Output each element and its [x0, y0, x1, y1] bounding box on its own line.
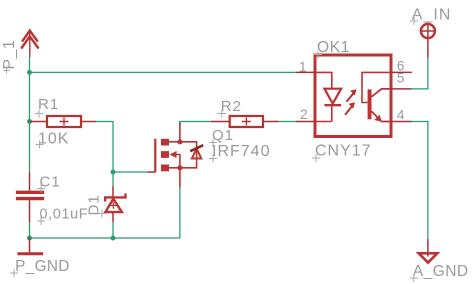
emitter [372, 111, 392, 121]
junction node gate/D1 [111, 170, 116, 175]
zener diode D1 [105, 186, 125, 222]
svg-text:P_1: P_1 [1, 39, 18, 69]
wire top rail from P_1 to OK1 pin1 [30, 57, 297, 72]
svg-text:A_GND: A_GND [413, 263, 469, 280]
gate bar [154, 139, 156, 172]
junction node D1 ground [111, 236, 116, 241]
wire drain to R2 [180, 122, 211, 128]
origin cross P_1 label [4, 68, 10, 74]
wire left vertical P_1 to C1 [29, 72, 31, 172]
body diode [192, 149, 201, 159]
emitter arrowhead [374, 115, 382, 122]
wire R1 right to D1 top [96, 122, 113, 187]
origin cross 0,01uF [37, 217, 45, 225]
junction node R1 left [27, 119, 32, 124]
wire bottom ground rail [30, 188, 180, 239]
svg-text:1: 1 [299, 60, 307, 75]
origin cross R1 [35, 110, 43, 118]
svg-text:4: 4 [397, 108, 405, 123]
emission arrows [347, 93, 354, 102]
connector A_IN [421, 24, 435, 58]
svg-text:Q1: Q1 [212, 127, 234, 144]
power symbol P_1 [21, 31, 38, 57]
origin cross P_GND [10, 269, 18, 277]
origin cross 10K [36, 141, 44, 149]
junction source [177, 165, 182, 170]
svg-text:CNY17: CNY17 [315, 143, 372, 160]
channel pads [161, 139, 169, 146]
origin cross C1 [37, 185, 45, 193]
origin cross R2 [218, 110, 226, 118]
svg-text:R2: R2 [221, 98, 242, 115]
LED inside [315, 72, 332, 121]
origin cross Q1 [209, 139, 217, 147]
svg-text:5: 5 [397, 71, 405, 86]
svg-text:OK1: OK1 [317, 39, 350, 56]
wire C1 bottom to ground rail [29, 222, 31, 238]
pin 5 stub [391, 88, 412, 90]
ground symbol P_GND [17, 238, 43, 255]
wire pin4 to A_GND [412, 122, 428, 240]
pin 2 stub [296, 121, 315, 123]
junction node C1 ground [27, 236, 32, 241]
resistor R1 [30, 116, 97, 127]
wire gate branch [113, 171, 147, 173]
pin 1 stub [296, 71, 315, 73]
body diode loop [180, 142, 197, 168]
base bar [368, 89, 372, 119]
origin cross OK1 [314, 51, 322, 59]
junction drain [177, 139, 182, 144]
origin cross A_IN [410, 17, 418, 25]
svg-text:C1: C1 [40, 174, 61, 191]
ground symbol A_GND [419, 239, 438, 263]
optocoupler OK1 [296, 55, 412, 137]
bulk arrow [170, 151, 177, 158]
resistor R2 [211, 116, 279, 127]
origin cross A_GND [410, 274, 418, 282]
box [315, 55, 391, 137]
svg-text:P_GND: P_GND [15, 258, 70, 275]
capacitor C1 [16, 173, 44, 223]
collector [372, 89, 392, 97]
svg-text:IRF740: IRF740 [212, 143, 270, 160]
source connect [169, 168, 180, 188]
svg-text:2: 2 [300, 107, 308, 122]
pin 4 stub [391, 121, 412, 123]
wire R2 to OK1 pin2 [279, 121, 296, 123]
drain connect [169, 122, 180, 142]
junction node P_1/rail [27, 70, 32, 75]
origin cross CNY17 [312, 154, 320, 162]
phototransistor base path [362, 72, 391, 102]
transistor Q1 MOSFET [147, 122, 203, 188]
wire A_IN to pin5 [412, 58, 428, 89]
gate pin [147, 171, 155, 173]
wire D1 bottom to ground rail [112, 222, 114, 238]
pin 6 stub [391, 71, 412, 73]
origin cross IRF740 [209, 155, 217, 163]
svg-text:R1: R1 [38, 96, 59, 113]
origin cross D1 [98, 210, 106, 218]
svg-text:D1: D1 [86, 194, 103, 215]
svg-text:0,01uF: 0,01uF [40, 207, 89, 223]
